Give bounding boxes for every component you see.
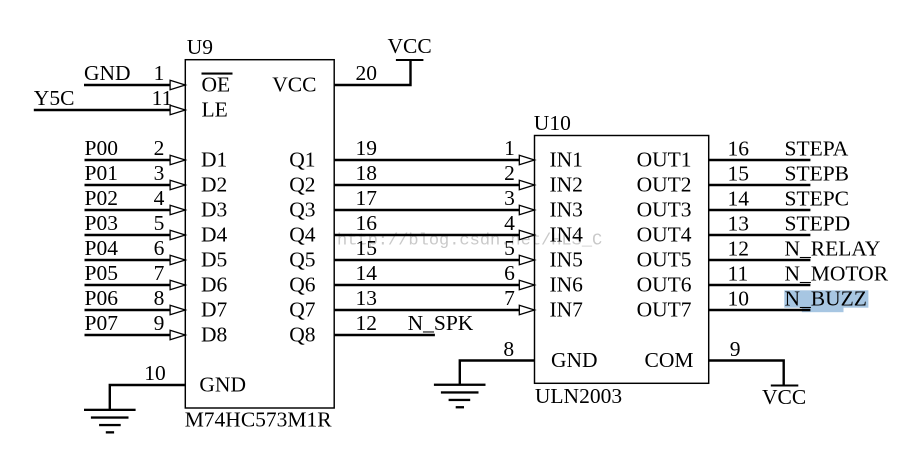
- svg-text:IN4: IN4: [550, 223, 584, 247]
- wire net P02 to U9 pin 4: [85, 209, 172, 211]
- svg-text:OUT6: OUT6: [637, 273, 692, 297]
- wire net P03 to U9 pin 5: [85, 234, 172, 236]
- svg-text:4: 4: [504, 211, 515, 235]
- svg-text:IN7: IN7: [550, 298, 584, 322]
- svg-text:Q8: Q8: [289, 323, 315, 347]
- U9 pin 11 input arrow: [170, 105, 185, 115]
- svg-text:IN5: IN5: [550, 248, 583, 272]
- svg-text:17: 17: [356, 186, 378, 210]
- wire net P06 to U9 pin 8: [85, 309, 172, 311]
- svg-text:LE: LE: [202, 98, 228, 122]
- ground symbol (left) bar 3: [99, 424, 121, 426]
- IC U10 body: [535, 136, 709, 384]
- svg-text:OUT2: OUT2: [637, 173, 692, 197]
- svg-text:P04: P04: [85, 236, 119, 260]
- U10 pin 2 input arrow: [519, 180, 534, 190]
- U10 pin 9 COM wire to VCC: [709, 361, 784, 386]
- svg-text:D7: D7: [201, 298, 228, 322]
- svg-text:OUT7: OUT7: [637, 298, 692, 322]
- wire net Y5C to U9 pin 11: [34, 109, 172, 111]
- svg-text:Q6: Q6: [289, 273, 316, 297]
- svg-text:2: 2: [504, 161, 515, 185]
- wire U9 Q3 pin 17 to U10 pin 3: [334, 209, 520, 211]
- svg-text:6: 6: [504, 261, 515, 285]
- svg-text:11: 11: [728, 261, 749, 285]
- svg-text:VCC: VCC: [388, 34, 432, 58]
- svg-text:9: 9: [730, 337, 741, 361]
- U9 pin 4 input arrow: [170, 205, 185, 215]
- svg-text:VCC: VCC: [272, 73, 316, 97]
- svg-text:D8: D8: [201, 323, 227, 347]
- svg-text:10: 10: [728, 286, 750, 310]
- svg-text:15: 15: [356, 236, 378, 260]
- svg-text:U9: U9: [187, 35, 213, 59]
- svg-text:Q5: Q5: [289, 248, 315, 272]
- svg-text:11: 11: [152, 86, 173, 110]
- svg-text:3: 3: [504, 186, 515, 210]
- svg-text:N_RELAY: N_RELAY: [785, 236, 881, 260]
- U10 pin 3 input arrow: [519, 205, 534, 215]
- svg-text:P00: P00: [85, 136, 118, 160]
- svg-text:OUT3: OUT3: [637, 198, 692, 222]
- U10 pin 5 input arrow: [519, 255, 534, 265]
- U9 pin 2 input arrow: [170, 155, 185, 165]
- wire U9 Q4 pin 16 to U10 pin 4: [334, 234, 520, 236]
- svg-text:OUT4: OUT4: [637, 223, 692, 247]
- ground symbol (left) bar 1: [84, 409, 136, 411]
- svg-text:18: 18: [356, 161, 378, 185]
- U9 pin 20 VCC wire: [334, 60, 410, 85]
- wire U9 Q1 pin 19 to U10 pin 1: [334, 159, 520, 161]
- svg-text:STEPC: STEPC: [785, 186, 850, 210]
- svg-text:4: 4: [154, 186, 165, 210]
- svg-text:STEPD: STEPD: [785, 211, 851, 235]
- svg-text:OE: OE: [202, 73, 231, 97]
- svg-text:STEPB: STEPB: [785, 161, 850, 185]
- ground symbol (right) bar 3: [449, 399, 471, 401]
- IC U9 body: [185, 60, 334, 408]
- wire U9 Q6 pin 14 to U10 pin 6: [334, 284, 520, 286]
- svg-text:ULN2003: ULN2003: [535, 384, 622, 408]
- svg-text:M74HC573M1R: M74HC573M1R: [185, 408, 333, 432]
- svg-text:7: 7: [154, 261, 165, 285]
- svg-text:IN1: IN1: [550, 148, 583, 172]
- svg-text:D4: D4: [201, 223, 228, 247]
- svg-text:GND: GND: [551, 348, 598, 372]
- svg-text:VCC: VCC: [762, 385, 806, 409]
- svg-text:1: 1: [504, 136, 515, 160]
- U10 pin 10 wire net N_BUZZ: [709, 309, 811, 311]
- svg-text:GND: GND: [199, 373, 246, 397]
- svg-text:D2: D2: [201, 173, 227, 197]
- svg-text:19: 19: [356, 136, 378, 160]
- U10 pin 7 input arrow: [519, 305, 534, 315]
- svg-text:U10: U10: [534, 111, 571, 135]
- U10 pin 12 wire net N_RELAY: [709, 259, 811, 261]
- highlight on net label N_BUZZ: [784, 290, 868, 307]
- wire net P05 to U9 pin 7: [85, 284, 172, 286]
- wire net P04 to U9 pin 6: [85, 259, 172, 261]
- svg-text:P03: P03: [85, 211, 118, 235]
- svg-text:5: 5: [154, 211, 165, 235]
- highlight under N_BUZZ wire: [802, 307, 844, 313]
- svg-text:3: 3: [154, 161, 165, 185]
- wire net P00 to U9 pin 2: [85, 159, 172, 161]
- U9 pin 9 input arrow: [170, 330, 185, 340]
- svg-text:P06: P06: [85, 286, 119, 310]
- svg-text:D6: D6: [201, 273, 228, 297]
- svg-text:10: 10: [144, 361, 166, 385]
- svg-text:12: 12: [728, 236, 750, 260]
- U10 pin 4 input arrow: [519, 230, 534, 240]
- wire U9 Q8 pin 12 net N_SPK: [334, 334, 435, 336]
- wire U9 Q2 pin 18 to U10 pin 2: [334, 184, 520, 186]
- svg-text:IN3: IN3: [550, 198, 583, 222]
- svg-text:Q2: Q2: [289, 173, 315, 197]
- ground symbol (left) bar 4: [106, 431, 114, 433]
- svg-text:9: 9: [154, 311, 165, 335]
- U10 pin 16 wire net STEPA: [709, 159, 811, 161]
- svg-text:8: 8: [503, 337, 514, 361]
- svg-text:GND: GND: [84, 61, 131, 85]
- U10 pin 8 GND wire: [460, 361, 535, 385]
- power symbol VCC bar (top): [396, 59, 424, 61]
- U10 pin 1 input arrow: [519, 155, 534, 165]
- svg-text:16: 16: [356, 211, 378, 235]
- svg-text:N_MOTOR: N_MOTOR: [785, 261, 889, 285]
- svg-text:N_SPK: N_SPK: [408, 311, 474, 335]
- svg-text:P07: P07: [85, 311, 119, 335]
- svg-text:D3: D3: [201, 198, 227, 222]
- svg-text:6: 6: [154, 236, 165, 260]
- svg-text:N_BUZZ: N_BUZZ: [785, 286, 867, 310]
- U10 pin 6 input arrow: [519, 280, 534, 290]
- U10 pin 15 wire net STEPB: [709, 184, 811, 186]
- wire U9 Q5 pin 15 to U10 pin 5: [334, 259, 520, 261]
- svg-text:Q1: Q1: [289, 148, 315, 172]
- svg-text:5: 5: [504, 236, 515, 260]
- wire net P01 to U9 pin 3: [85, 184, 172, 186]
- svg-text:IN6: IN6: [550, 273, 584, 297]
- U10 pin 11 wire net N_MOTOR: [709, 284, 811, 286]
- svg-text:Q7: Q7: [289, 298, 316, 322]
- svg-text:OUT1: OUT1: [637, 148, 692, 172]
- svg-text:Q4: Q4: [289, 223, 316, 247]
- U10 pin 13 wire net STEPD: [709, 234, 811, 236]
- wire net P07 to U9 pin 9: [85, 334, 172, 336]
- U9 pin 6 input arrow: [170, 255, 185, 265]
- svg-text:13: 13: [728, 211, 750, 235]
- svg-text:D1: D1: [201, 148, 227, 172]
- svg-text:13: 13: [356, 286, 378, 310]
- svg-text:IN2: IN2: [550, 173, 583, 197]
- svg-text:OUT5: OUT5: [637, 248, 692, 272]
- svg-text:14: 14: [356, 261, 378, 285]
- svg-text:STEPA: STEPA: [785, 136, 849, 160]
- svg-text:Q3: Q3: [289, 198, 315, 222]
- OE overline: [202, 73, 233, 75]
- ground symbol (right) bar 4: [456, 406, 464, 408]
- U9 pin 3 input arrow: [170, 180, 185, 190]
- svg-text:P01: P01: [85, 161, 118, 185]
- U9 pin 1 input arrow: [170, 80, 185, 90]
- power symbol VCC bar (bottom right): [771, 385, 799, 387]
- svg-text:2: 2: [154, 136, 165, 160]
- svg-text:20: 20: [356, 61, 378, 85]
- svg-text:7: 7: [504, 286, 515, 310]
- U9 pin 10 GND wire: [110, 385, 186, 410]
- svg-text:8: 8: [154, 286, 165, 310]
- svg-text:1: 1: [154, 61, 165, 85]
- svg-text:P02: P02: [85, 186, 118, 210]
- svg-text:Y5C: Y5C: [34, 86, 75, 110]
- U9 pin 7 input arrow: [170, 280, 185, 290]
- ground symbol (right) bar 2: [441, 391, 479, 393]
- svg-text:16: 16: [728, 136, 750, 160]
- wire net GND to U9 pin 1: [84, 84, 172, 86]
- U9 pin 5 input arrow: [170, 230, 185, 240]
- svg-text:P05: P05: [85, 261, 118, 285]
- wire U9 Q7 pin 13 to U10 pin 7: [334, 309, 520, 311]
- svg-text:15: 15: [728, 161, 750, 185]
- svg-text:COM: COM: [645, 348, 694, 372]
- svg-text:D5: D5: [201, 248, 227, 272]
- U9 pin 8 input arrow: [170, 305, 185, 315]
- ground symbol (right) bar 1: [434, 384, 486, 386]
- U10 pin 14 wire net STEPC: [709, 209, 811, 211]
- svg-text:12: 12: [356, 311, 378, 335]
- ground symbol (left) bar 2: [91, 416, 129, 418]
- svg-text:14: 14: [728, 186, 750, 210]
